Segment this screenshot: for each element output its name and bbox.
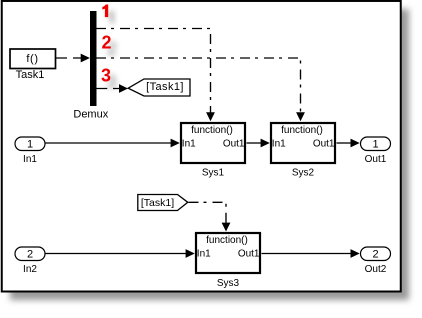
svg-text:function(): function() [206, 235, 248, 246]
svg-text:Out1: Out1 [238, 249, 260, 260]
block Task1 (f() function-call generator) [10, 49, 56, 69]
svg-text:function(): function() [281, 125, 323, 136]
inport In2 [15, 247, 45, 261]
wire function-call 2 (dash-dot Demux to Sys2) [96, 58, 305, 121]
svg-text:In1: In1 [182, 139, 196, 150]
svg-text:2: 2 [102, 33, 112, 53]
svg-text:1: 1 [372, 138, 378, 150]
svg-text:function(): function() [191, 125, 233, 136]
svg-text:[Task1]: [Task1] [141, 197, 174, 209]
outport Out2 [361, 247, 391, 261]
from tag [Task1] [138, 195, 188, 211]
svg-text:1: 1 [27, 138, 33, 150]
subsystem Sys2 [271, 123, 335, 163]
goto tag [Task1] [128, 79, 190, 96]
wire Task1 to Demux [56, 54, 90, 63]
svg-text:[Task1]: [Task1] [146, 81, 184, 93]
svg-text:Out1: Out1 [223, 139, 245, 150]
wire Sys1 to Sys2 [247, 139, 270, 148]
svg-text:Out2: Out2 [365, 264, 387, 275]
svg-text:f(): f() [26, 53, 38, 65]
callout number 1 [102, 5, 108, 18]
outport Out1 [361, 137, 391, 151]
wire In1 to Sys1 [46, 139, 180, 148]
callout number 1 shadow [108, 11, 114, 24]
wire function-call 1 (dash-dot Demux to Sys1) [96, 29, 215, 122]
svg-text:In1: In1 [23, 154, 37, 165]
wire In2 to Sys3 [46, 249, 195, 258]
svg-text:In1: In1 [197, 249, 211, 260]
demux Demux [90, 11, 97, 106]
svg-text:Out1: Out1 [313, 139, 335, 150]
svg-text:Task1: Task1 [16, 69, 45, 81]
wire Demux output 3 to Goto tag [96, 84, 128, 93]
svg-text:Sys2: Sys2 [292, 168, 315, 179]
svg-text:Out1: Out1 [365, 154, 387, 165]
svg-text:Demux: Demux [73, 108, 108, 120]
svg-text:In1: In1 [272, 139, 286, 150]
wire function-call 3 (dash-dot From tag to Sys3) [189, 202, 231, 231]
svg-text:Sys1: Sys1 [202, 168, 225, 179]
inport In1 [15, 137, 45, 151]
svg-text:2: 2 [27, 248, 33, 260]
wire Sys2 to Out1 [337, 139, 360, 148]
svg-text:3: 3 [101, 66, 111, 86]
subsystem Sys3 [196, 233, 260, 273]
svg-text:2: 2 [372, 248, 378, 260]
wire Sys3 to Out2 [262, 249, 360, 258]
svg-text:In2: In2 [23, 264, 37, 275]
subsystem Sys1 [181, 123, 245, 163]
svg-text:Sys3: Sys3 [217, 278, 240, 289]
